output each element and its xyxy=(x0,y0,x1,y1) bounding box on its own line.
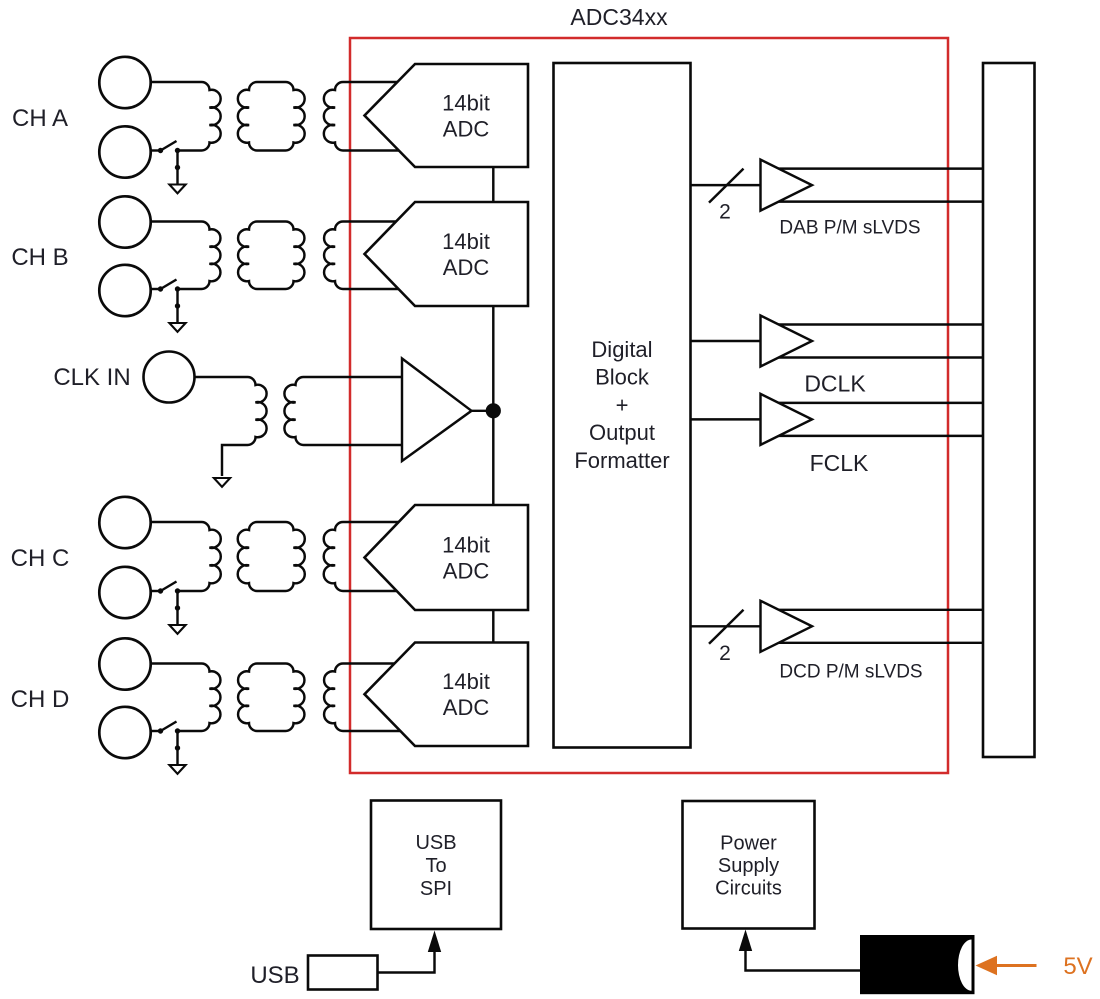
transformer TD1 secondary / TD2 primary windings xyxy=(238,664,304,732)
transformer TA1 primary winding xyxy=(151,82,221,151)
svg-text:+: + xyxy=(616,392,629,417)
svg-text:Circuits: Circuits xyxy=(715,878,782,900)
junction dot at SB pole xyxy=(175,286,180,291)
bus-width slash for DCD xyxy=(709,610,744,644)
transformer TA2 secondary winding with wires to ADC xyxy=(324,82,401,151)
svg-text:ADC: ADC xyxy=(443,255,490,280)
switch SD lever xyxy=(161,722,177,732)
connector CHC+ input jack xyxy=(99,497,150,548)
buffer DCLK xyxy=(761,316,813,367)
switch SC contact dot xyxy=(158,588,163,593)
wire CHB- stub xyxy=(151,288,161,290)
5V arrow into barrel plug xyxy=(976,956,998,976)
wire barrel jack to power supply xyxy=(746,951,862,971)
wire DCLK output pair xyxy=(773,323,983,325)
ground symbol CLK xyxy=(214,478,230,487)
wire DCD output pair xyxy=(773,609,983,611)
svg-text:ADC: ADC xyxy=(443,695,490,720)
transformer TC1 secondary / TC2 primary windings xyxy=(238,522,305,591)
switch SA contact dot xyxy=(158,148,163,153)
svg-text:Block: Block xyxy=(595,365,650,390)
svg-text:2: 2 xyxy=(719,201,731,224)
svg-text:ADC: ADC xyxy=(443,116,490,141)
switch SB contact dot xyxy=(158,286,163,291)
arrowhead into USB-To-SPI xyxy=(428,931,441,953)
DC barrel plug face highlight xyxy=(958,940,971,991)
ADC block A (14bit ADC) xyxy=(365,64,529,167)
transformer TC2 secondary winding with wires to ADC xyxy=(324,522,401,591)
svg-text:Supply: Supply xyxy=(718,855,779,877)
junction dot on CHD ground wire xyxy=(175,745,180,750)
connector CHA- input jack xyxy=(99,126,150,177)
buffer DCD xyxy=(761,601,813,652)
buffer DAB xyxy=(761,160,813,211)
connector CHD+ input jack xyxy=(99,638,150,689)
svg-text:Formatter: Formatter xyxy=(574,448,669,473)
transformer TB1 secondary / TB2 primary windings xyxy=(238,222,304,290)
wire clock buffer output xyxy=(472,410,495,412)
transformer TC1 primary winding xyxy=(151,522,221,591)
junction dot at SC pole xyxy=(175,588,180,593)
svg-text:CH B: CH B xyxy=(11,244,68,271)
svg-text:DAB P/M sLVDS: DAB P/M sLVDS xyxy=(779,218,920,239)
transformer TB1 primary winding xyxy=(151,222,221,290)
USB To SPI box xyxy=(371,801,501,930)
junction node clock distribution dot xyxy=(486,403,501,418)
clock buffer U-CLK xyxy=(402,359,472,462)
transformer TB2 secondary winding with wires to ADC xyxy=(324,222,401,290)
USB connector box xyxy=(308,956,378,990)
ground symbol CHC xyxy=(169,625,185,634)
wire CHA- stub xyxy=(151,149,161,151)
transformer TD1 primary winding xyxy=(151,664,221,732)
wire digital block to DCD buffer xyxy=(691,625,766,627)
transformer TCLK primary winding xyxy=(195,377,267,476)
svg-text:USB: USB xyxy=(250,962,299,989)
buffer FCLK xyxy=(761,394,813,445)
wire digital block to DAB buffer xyxy=(691,184,766,186)
svg-text:2: 2 xyxy=(719,642,731,665)
ADC block D (14bit ADC) xyxy=(365,643,529,747)
connector CHB- input jack xyxy=(99,265,150,316)
svg-text:SPI: SPI xyxy=(420,878,452,900)
transformer TCLK secondary winding with wires to clock buffer xyxy=(284,377,402,445)
junction dot at SA pole xyxy=(175,148,180,153)
svg-text:ADC: ADC xyxy=(443,558,490,583)
Power Supply Circuits box xyxy=(683,801,815,929)
bus-width slash for DAB xyxy=(709,169,744,203)
ADC34xx device boundary (red box) xyxy=(350,38,948,773)
ADC block C (14bit ADC) xyxy=(365,505,529,610)
connector CLK IN jack xyxy=(144,352,195,403)
wire SB to ground xyxy=(176,289,178,323)
svg-text:14bit: 14bit xyxy=(442,90,490,115)
wire CHC- stub xyxy=(151,590,161,592)
connector CHC- input jack xyxy=(99,567,150,618)
DC barrel plug body xyxy=(861,936,974,993)
transformer TD2 secondary winding with wires to ADC xyxy=(324,664,401,732)
wire FCLK output pair xyxy=(773,402,983,404)
wire SC to ground xyxy=(176,591,178,625)
ground symbol CHD xyxy=(169,765,185,774)
connector CHA+ input jack xyxy=(99,57,150,108)
svg-text:DCD P/M sLVDS: DCD P/M sLVDS xyxy=(779,662,922,683)
svg-text:FCLK: FCLK xyxy=(810,450,869,476)
svg-text:5V: 5V xyxy=(1063,953,1092,980)
svg-text:CH C: CH C xyxy=(11,545,70,572)
svg-text:Power: Power xyxy=(720,833,777,855)
svg-text:CH A: CH A xyxy=(12,105,68,132)
wire USB connector to USB-To-SPI xyxy=(378,951,435,973)
junction dot on CHB ground wire xyxy=(175,303,180,308)
ADC block B (14bit ADC) xyxy=(365,202,529,306)
connector CHB+ input jack xyxy=(99,196,150,247)
svg-text:14bit: 14bit xyxy=(442,229,490,254)
svg-text:14bit: 14bit xyxy=(442,532,490,557)
wire CHD- stub xyxy=(151,730,161,732)
junction dot on CHA ground wire xyxy=(175,165,180,170)
output connector (right edge card) xyxy=(983,63,1035,757)
switch SA lever xyxy=(161,141,177,151)
connector CHD- input jack xyxy=(99,707,150,758)
svg-text:To: To xyxy=(425,855,446,877)
ground symbol CHB xyxy=(169,323,185,332)
svg-text:DCLK: DCLK xyxy=(804,371,866,397)
arrowhead into Power Supply Circuits xyxy=(739,930,752,952)
svg-text:CH D: CH D xyxy=(11,686,70,713)
wire SA to ground xyxy=(176,151,178,185)
svg-text:CLK IN: CLK IN xyxy=(53,364,130,391)
switch SB lever xyxy=(161,280,177,290)
wire SD to ground xyxy=(176,731,178,765)
ground symbol CHA xyxy=(169,185,185,194)
Digital Block + Output Formatter box xyxy=(554,63,691,748)
switch SD contact dot xyxy=(158,728,163,733)
svg-text:Output: Output xyxy=(589,420,655,445)
junction dot at SD pole xyxy=(175,728,180,733)
svg-text:Digital: Digital xyxy=(591,337,652,362)
junction dot on CHC ground wire xyxy=(175,605,180,610)
switch SC lever xyxy=(161,582,177,592)
svg-text:USB: USB xyxy=(415,832,456,854)
wire digital block to FCLK buffer xyxy=(691,418,766,420)
wire DAB output pair xyxy=(773,167,983,169)
wire ADC clock chain xyxy=(492,167,494,643)
transformer TA1 secondary / TA2 primary windings xyxy=(238,82,305,151)
svg-text:14bit: 14bit xyxy=(442,669,490,694)
wire digital block to DCLK buffer xyxy=(691,340,766,342)
svg-text:ADC34xx: ADC34xx xyxy=(570,4,668,30)
